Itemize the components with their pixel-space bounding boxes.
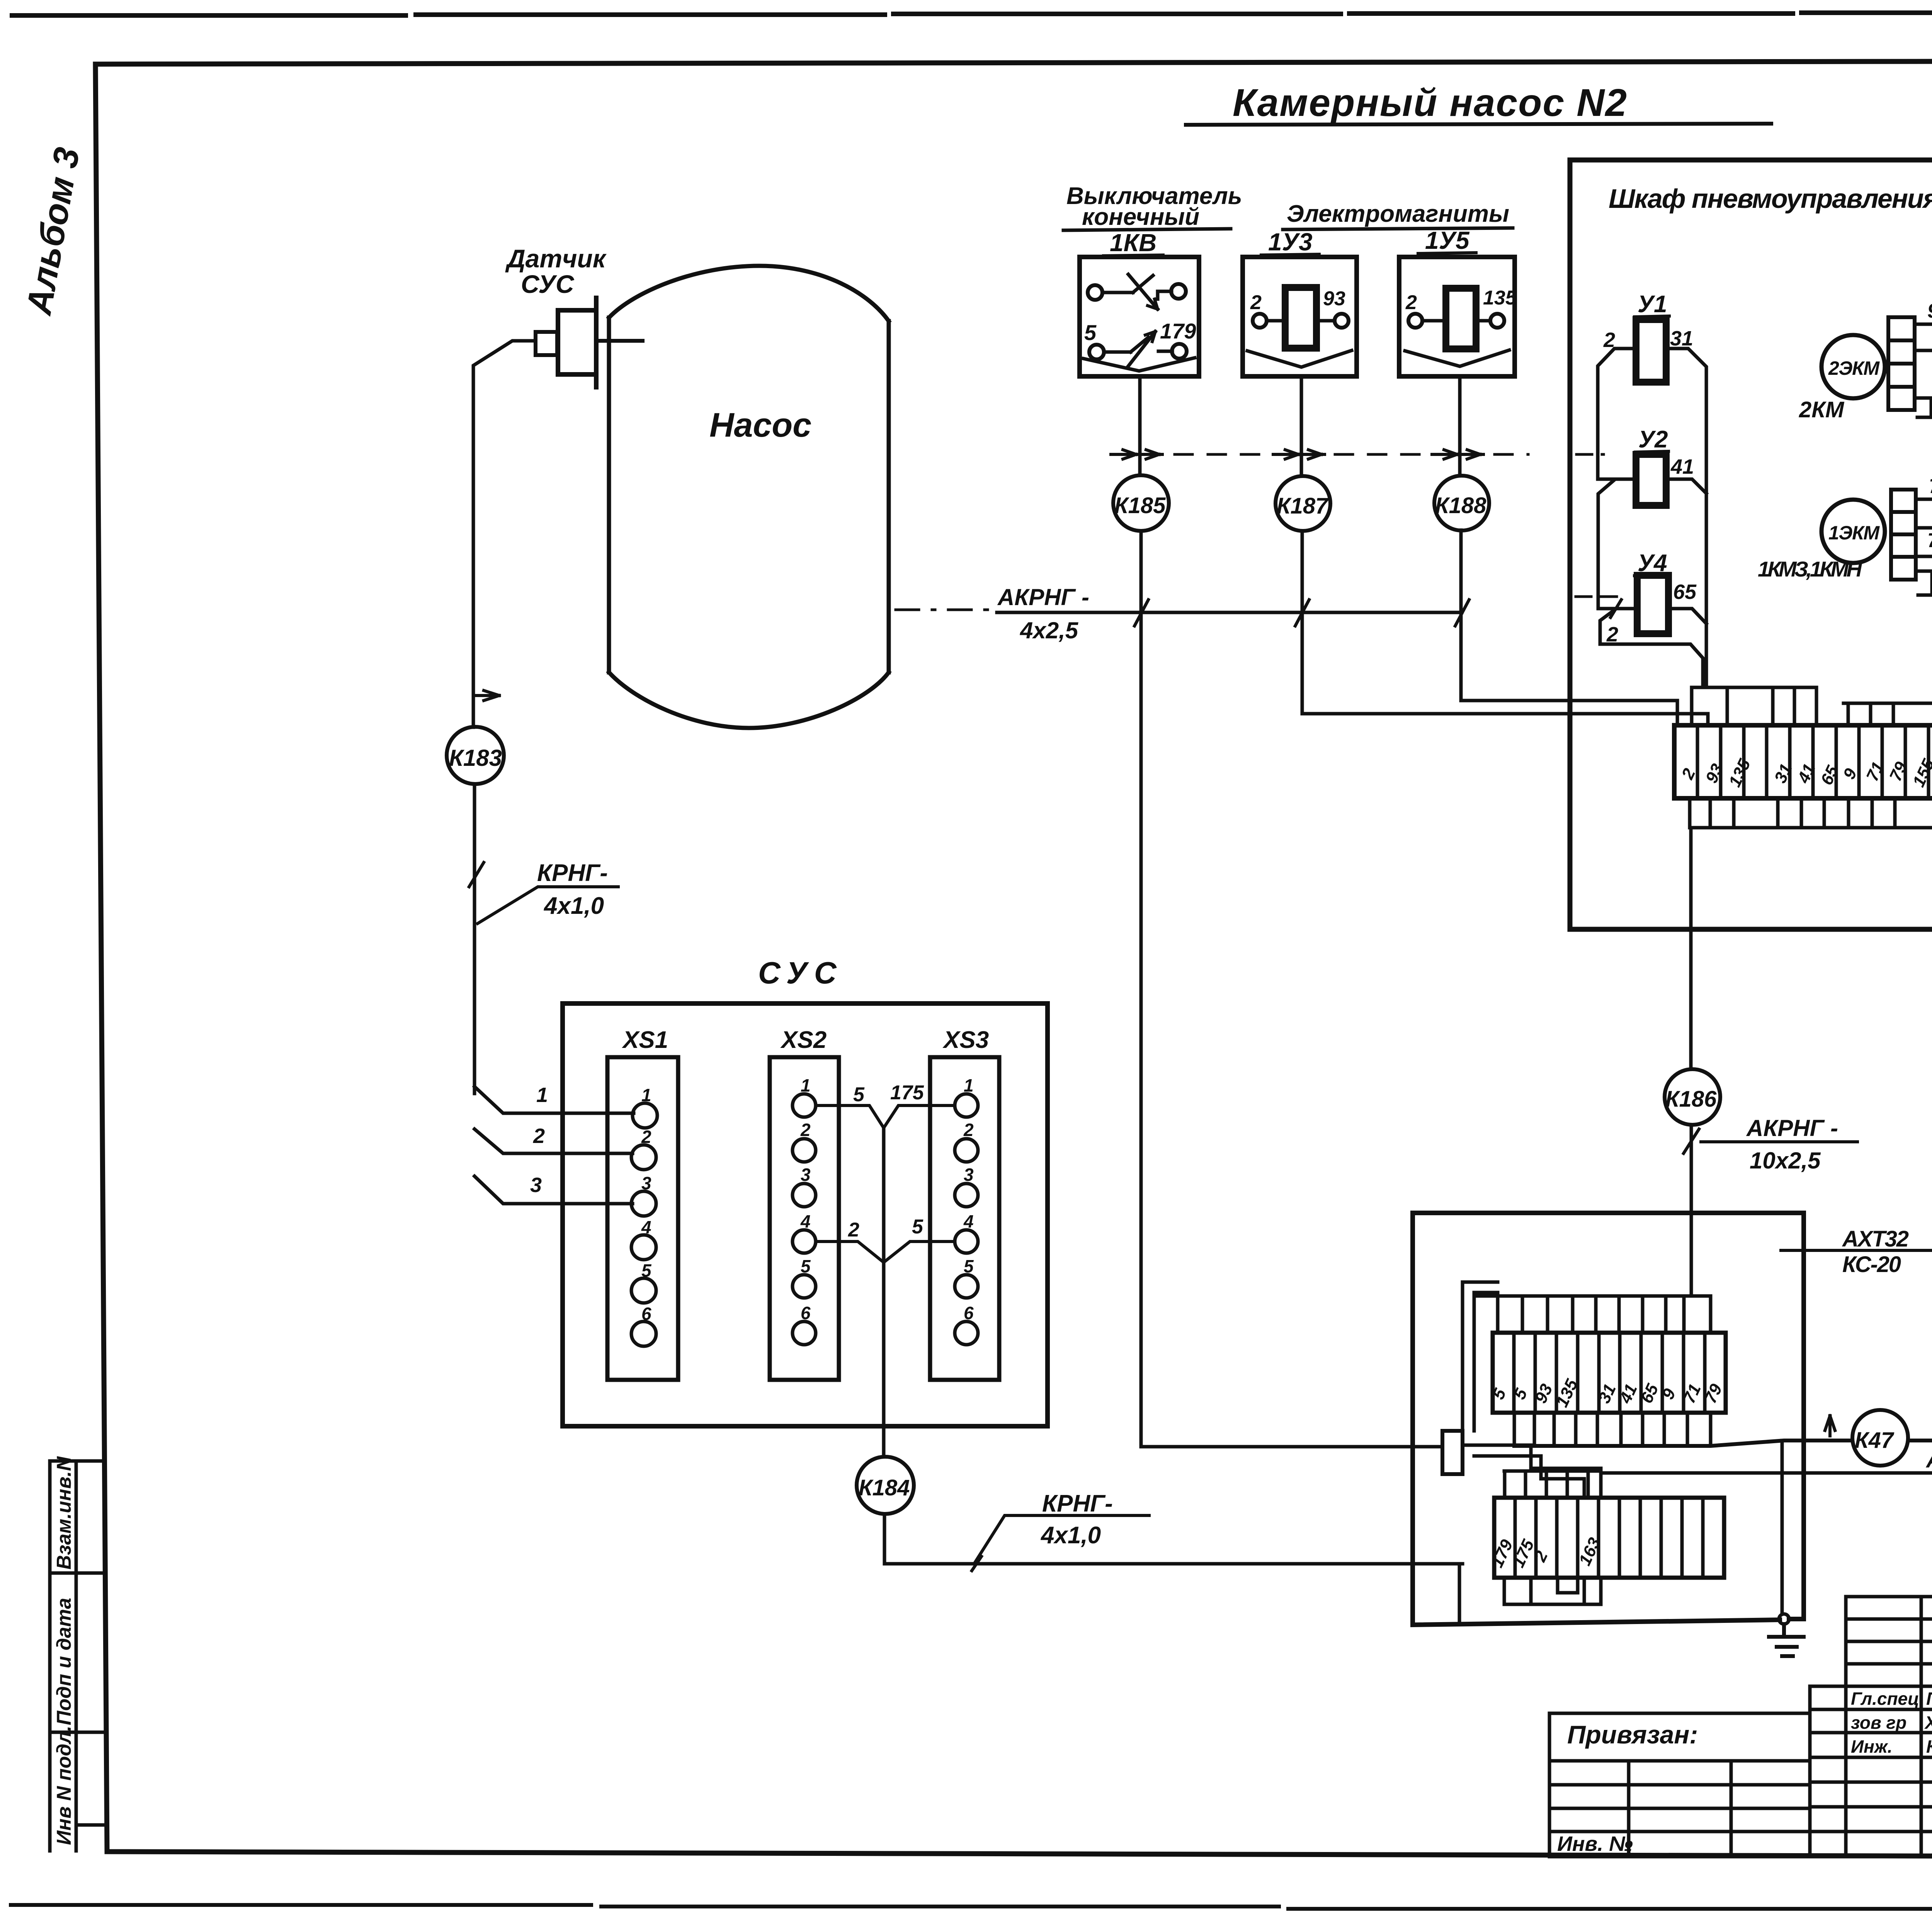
cable entry arrows above K188 <box>1432 450 1483 459</box>
1EKM wire 5 <box>1916 528 1932 552</box>
svg-text:Шкаф пневмоуправления: Шкаф пневмоуправления <box>1609 184 1932 214</box>
connector XS1 body <box>607 1057 678 1380</box>
jbox lower strip top comb <box>1504 1471 1601 1498</box>
jbox upper terminal strip <box>1493 1333 1726 1413</box>
XS1 pins <box>631 1103 657 1346</box>
svg-text:1: 1 <box>801 1075 811 1095</box>
staircase wires to lower strip <box>1463 1445 1601 1498</box>
wire from sensor to K183 <box>473 341 536 727</box>
jbox upper strip dividers <box>1514 1333 1705 1413</box>
K47 rail from strip <box>1514 1440 1932 1446</box>
cable slash on K183 wire <box>469 862 484 887</box>
svg-text:АКРНГ -: АКРНГ - <box>997 584 1089 610</box>
svg-text:АКРНГ -: АКРНГ - <box>1746 1115 1838 1141</box>
svg-text:К183: К183 <box>449 745 502 771</box>
jbox upper strip cell numbers <box>1489 1376 1726 1410</box>
electromagnet 1U5 box <box>1399 257 1515 376</box>
svg-text:4: 4 <box>963 1211 974 1231</box>
slash on U4 feed <box>1611 600 1621 617</box>
svg-text:5: 5 <box>964 1256 974 1276</box>
2EKM wire 9 <box>1915 324 1932 349</box>
cable entry arrows above K185 <box>1111 450 1162 459</box>
svg-text:4: 4 <box>800 1211 811 1231</box>
svg-text:65: 65 <box>1673 580 1697 604</box>
svg-text:Инж.: Инж. <box>1851 1736 1893 1757</box>
svg-text:6: 6 <box>801 1303 811 1323</box>
svg-text:3: 3 <box>801 1165 811 1185</box>
svg-text:5: 5 <box>1084 320 1097 345</box>
K184 wire down to box bottom <box>1458 1564 1461 1623</box>
svg-text:2: 2 <box>963 1120 974 1140</box>
1U5 terminal wires <box>1422 319 1490 323</box>
XS3 pin numbers <box>963 1075 974 1323</box>
link XS2:4 to XS3:4 <box>816 1242 955 1262</box>
svg-text:Насос: Насос <box>709 406 811 444</box>
svg-text:41: 41 <box>1670 455 1694 478</box>
svg-text:3: 3 <box>964 1165 974 1185</box>
svg-text:XS1: XS1 <box>622 1027 668 1053</box>
wire 163 to siren <box>1601 1471 1932 1475</box>
svg-text:1КВ: 1КВ <box>1110 229 1156 257</box>
svg-text:2: 2 <box>800 1120 811 1140</box>
svg-text:К186: К186 <box>1665 1087 1717 1112</box>
svg-text:6: 6 <box>964 1303 974 1323</box>
dash-dot stub left of U1 <box>1577 453 1604 456</box>
svg-text:XS2: XS2 <box>780 1027 827 1053</box>
svg-text:31: 31 <box>1670 327 1693 350</box>
svg-text:2: 2 <box>1405 291 1417 314</box>
gauge 1EKM circle <box>1821 500 1885 563</box>
cable marker K183 <box>447 727 504 784</box>
svg-text:Инв N подл.: Инв N подл. <box>53 1726 75 1845</box>
svg-text:Инв. №: Инв. № <box>1557 1832 1633 1855</box>
svg-text:конечный: конечный <box>1082 204 1199 230</box>
cabinet strip top-left box <box>1692 687 1816 725</box>
svg-text:зов гр: зов гр <box>1851 1713 1906 1733</box>
jbox upper strip bottom comb <box>1514 1413 1711 1446</box>
1EKM terminal strip <box>1891 490 1916 580</box>
valve U4 coil <box>1637 575 1668 634</box>
1U5 terminals <box>1408 314 1504 328</box>
pneumatic cabinet box <box>1570 160 1932 929</box>
ground symbol <box>1769 1624 1804 1656</box>
svg-text:К47: К47 <box>1855 1428 1895 1453</box>
svg-text:Кадыкова: Кадыкова <box>1926 1736 1932 1757</box>
1KV terminals <box>1088 284 1187 359</box>
1U5 coil <box>1446 288 1476 349</box>
1KV bottom V strap <box>1083 358 1195 371</box>
2EKM wire 5 <box>1915 350 1932 371</box>
valve U2 coil <box>1636 454 1666 505</box>
jbox lower terminal strip <box>1494 1498 1724 1578</box>
1EKM wire 79 <box>1916 556 1932 587</box>
svg-text:5: 5 <box>641 1260 652 1281</box>
cable marker K47 <box>1852 1410 1908 1466</box>
1U3 coil <box>1285 287 1316 348</box>
jbox upper strip top comb <box>1478 1296 1711 1333</box>
svg-text:4х1,0: 4х1,0 <box>543 893 604 919</box>
cabinet strip cell numbers <box>1678 756 1932 790</box>
cable marker K188 <box>1434 476 1489 531</box>
cabinet strip cell dividers <box>1697 725 1929 798</box>
svg-text:У1: У1 <box>1638 291 1667 318</box>
svg-text:5: 5 <box>853 1083 865 1106</box>
svg-text:СУС: СУС <box>521 270 575 298</box>
XS1 pin numbers <box>641 1085 652 1324</box>
2EKM ground stub <box>1915 398 1932 417</box>
1KV contact top <box>1102 274 1172 309</box>
svg-text:КРНГ-: КРНГ- <box>537 860 608 886</box>
svg-text:93: 93 <box>1323 287 1345 310</box>
1U3 drop wire <box>1301 376 1708 725</box>
left lug block <box>1442 1431 1463 1474</box>
2EKM terminal strip <box>1888 317 1915 410</box>
svg-text:АКРНГ - 14х2,5: АКРНГ - 14х2,5 <box>1925 1447 1932 1473</box>
svg-text:XS3: XS3 <box>942 1027 989 1053</box>
1U3 bottom V strap <box>1247 350 1352 367</box>
link XS2:1 to XS3:1 <box>816 1105 955 1128</box>
ground wire from K47 rail <box>1781 1440 1784 1614</box>
junction box ground terminal circle <box>1779 1614 1789 1624</box>
lug riser wires to upper strip <box>1463 1282 1498 1431</box>
svg-text:179: 179 <box>1160 319 1196 343</box>
svg-text:Потехин: Потехин <box>1926 1689 1932 1709</box>
connector XS3 body <box>930 1057 999 1380</box>
cable marker K187 <box>1276 476 1330 531</box>
XS2 pins <box>793 1094 816 1345</box>
svg-text:71: 71 <box>1929 475 1932 498</box>
svg-text:Подп и дата: Подп и дата <box>53 1598 75 1725</box>
svg-text:Датчик: Датчик <box>505 244 607 273</box>
slash on K186 wire <box>1684 1129 1699 1153</box>
cabinet terminal strip <box>1674 725 1932 798</box>
valve group outline <box>1598 349 1706 687</box>
dash line linking cable arrows <box>1175 453 1528 456</box>
svg-text:10х2,5: 10х2,5 <box>1750 1148 1821 1173</box>
1U3 terminal wires <box>1267 319 1335 323</box>
electromagnet 1U3 box <box>1243 257 1357 376</box>
limit switch 1KV box <box>1080 257 1199 376</box>
jbox lower strip dividers <box>1515 1498 1703 1578</box>
1EKM wire 71 <box>1916 499 1932 522</box>
privyazan box <box>1549 1713 1810 1857</box>
SUS cabinet box <box>563 1003 1048 1426</box>
svg-text:2: 2 <box>848 1219 859 1241</box>
pump tank outline <box>609 266 889 728</box>
dash-dot from tank to AKRNG bus <box>896 609 993 611</box>
svg-text:Хрипушкина: Хрипушкина <box>1924 1713 1932 1733</box>
1EKM ground stub <box>1916 571 1932 595</box>
svg-text:1У5: 1У5 <box>1425 226 1470 254</box>
svg-text:5: 5 <box>801 1256 811 1276</box>
1KV drop wire <box>1140 376 1442 1447</box>
svg-text:4х2,5: 4х2,5 <box>1020 617 1079 643</box>
svg-text:СУС: СУС <box>758 956 844 990</box>
svg-text:К184: К184 <box>859 1475 910 1500</box>
svg-text:9: 9 <box>1927 300 1932 322</box>
1U5 bottom V strap <box>1405 350 1509 366</box>
sensor cable fan to XS1 <box>474 1087 634 1204</box>
cabinet strip top-right feeds <box>1844 703 1932 725</box>
svg-text:4х1,0: 4х1,0 <box>1040 1522 1101 1549</box>
cable marker K184 <box>857 1457 914 1514</box>
svg-text:2КМ: 2КМ <box>1799 397 1845 422</box>
title underline <box>1186 124 1771 125</box>
cable entry arrows above K187 <box>1273 450 1325 459</box>
AKRNG-4x2,5 bus wire <box>997 611 1462 614</box>
svg-text:2: 2 <box>533 1124 545 1148</box>
svg-text:79: 79 <box>1927 529 1932 552</box>
connector XS2 body <box>770 1057 839 1380</box>
svg-text:3: 3 <box>530 1173 542 1197</box>
dash-dot stub left of U4 <box>1576 595 1627 598</box>
K184 riser wire <box>882 1128 886 1457</box>
jbox lower strip cell numbers <box>1488 1535 1604 1570</box>
svg-text:У2: У2 <box>1638 426 1668 453</box>
cabinet strip bottom comb <box>1690 798 1932 828</box>
cable marker K186 <box>1665 1069 1720 1125</box>
svg-text:1ЭКМ: 1ЭКМ <box>1828 522 1880 544</box>
gauge 2EKM circle <box>1821 335 1885 398</box>
cable slash on K184 wire <box>972 1556 981 1571</box>
junction box <box>1413 1213 1804 1625</box>
cable marker K185 <box>1113 475 1169 531</box>
page outer top edge <box>12 12 1932 15</box>
svg-text:2: 2 <box>1250 291 1262 314</box>
signature rows text <box>1851 1689 1932 1757</box>
svg-text:Электромагниты: Электромагниты <box>1287 201 1509 227</box>
bus slashes at wire crossings <box>1134 600 1469 626</box>
svg-text:2: 2 <box>641 1127 651 1147</box>
wire from K184 to junction box <box>884 1514 1463 1564</box>
svg-text:3: 3 <box>641 1173 651 1193</box>
svg-text:КС-20: КС-20 <box>1842 1252 1901 1277</box>
svg-text:1У3: 1У3 <box>1268 228 1313 256</box>
flow arrow on sensor wire <box>475 690 499 701</box>
svg-text:КРНГ-: КРНГ- <box>1042 1490 1113 1517</box>
page outer bottom edge <box>11 1905 1932 1911</box>
svg-text:1: 1 <box>536 1083 548 1107</box>
svg-text:2ЭКМ: 2ЭКМ <box>1828 357 1880 379</box>
valve U1 coil <box>1636 320 1666 382</box>
svg-text:175: 175 <box>890 1082 924 1104</box>
1U3 terminals <box>1253 314 1349 328</box>
svg-text:4: 4 <box>641 1217 651 1237</box>
svg-text:1: 1 <box>964 1075 974 1095</box>
K186 drop wire <box>1691 828 1691 1296</box>
svg-text:К185: К185 <box>1114 493 1166 518</box>
svg-text:135: 135 <box>1483 287 1517 309</box>
svg-text:6: 6 <box>641 1304 651 1324</box>
svg-text:АХТ32: АХТ32 <box>1842 1226 1909 1252</box>
wire below K183 <box>473 784 476 1094</box>
svg-text:5: 5 <box>912 1216 923 1238</box>
svg-text:К187: К187 <box>1277 493 1329 519</box>
svg-text:1: 1 <box>641 1085 651 1105</box>
XS3 pins <box>955 1094 978 1345</box>
jbox lower strip bottom comb <box>1504 1578 1601 1604</box>
title block signature table <box>1810 1597 1932 1857</box>
K47 flow arrow <box>1825 1416 1835 1436</box>
svg-text:Взам.инв.N: Взам.инв.N <box>53 1456 75 1570</box>
left margin stamp boxes <box>50 1461 105 1851</box>
svg-text:Гл.спец: Гл.спец <box>1851 1689 1919 1709</box>
svg-text:Камерный насос N2: Камерный насос N2 <box>1233 81 1627 124</box>
svg-text:Привязан:: Привязан: <box>1567 1720 1698 1749</box>
svg-text:К188: К188 <box>1435 493 1486 518</box>
sensor SUS body <box>536 298 643 387</box>
XS2 pin numbers <box>800 1075 811 1323</box>
1U5 drop wire <box>1460 376 1677 725</box>
1KV contact bottom <box>1104 332 1172 367</box>
svg-text:1КМЗ,1КМН: 1КМЗ,1КМН <box>1758 557 1863 581</box>
